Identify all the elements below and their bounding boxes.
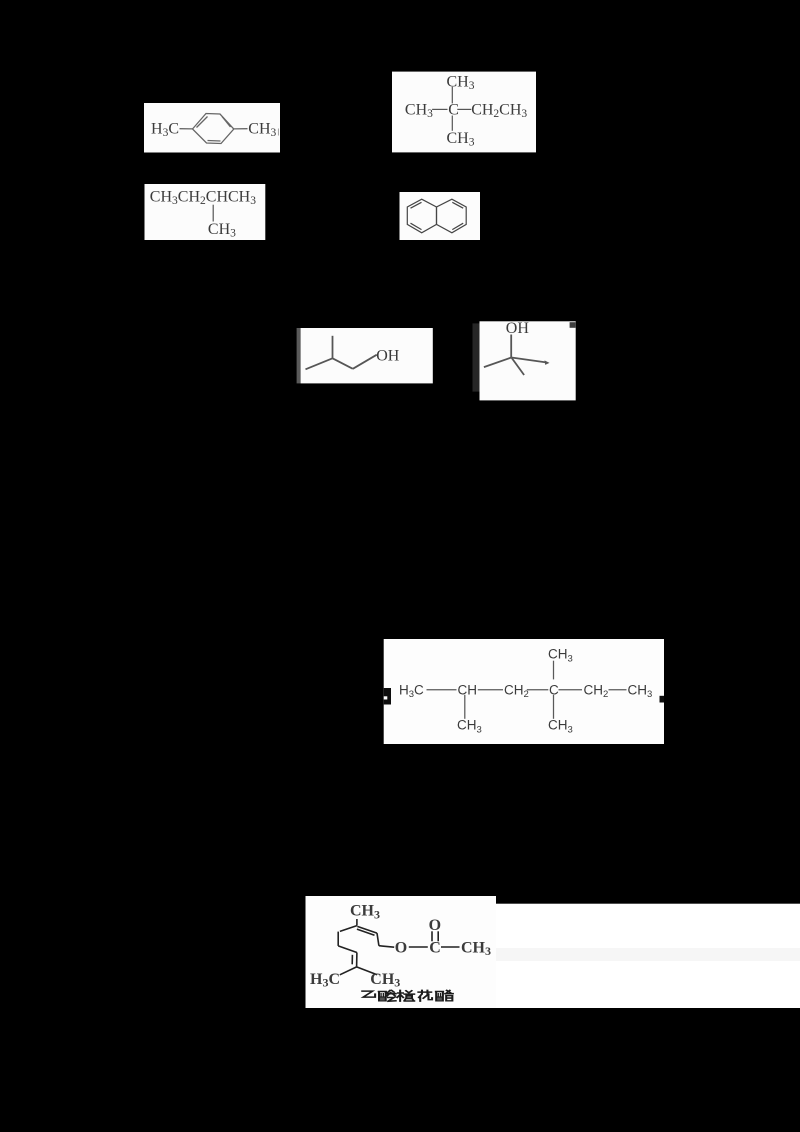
svg-text:CH: CH — [458, 682, 478, 697]
svg-text:OH: OH — [376, 347, 400, 364]
svg-text:C: C — [448, 102, 459, 119]
svg-text:O: O — [429, 917, 441, 934]
svg-text:O: O — [395, 939, 407, 956]
svg-text:OH: OH — [506, 320, 530, 337]
svg-text:C: C — [549, 682, 559, 697]
svg-text:CH2CH3: CH2CH3 — [471, 102, 527, 121]
svg-text:C: C — [429, 939, 441, 956]
